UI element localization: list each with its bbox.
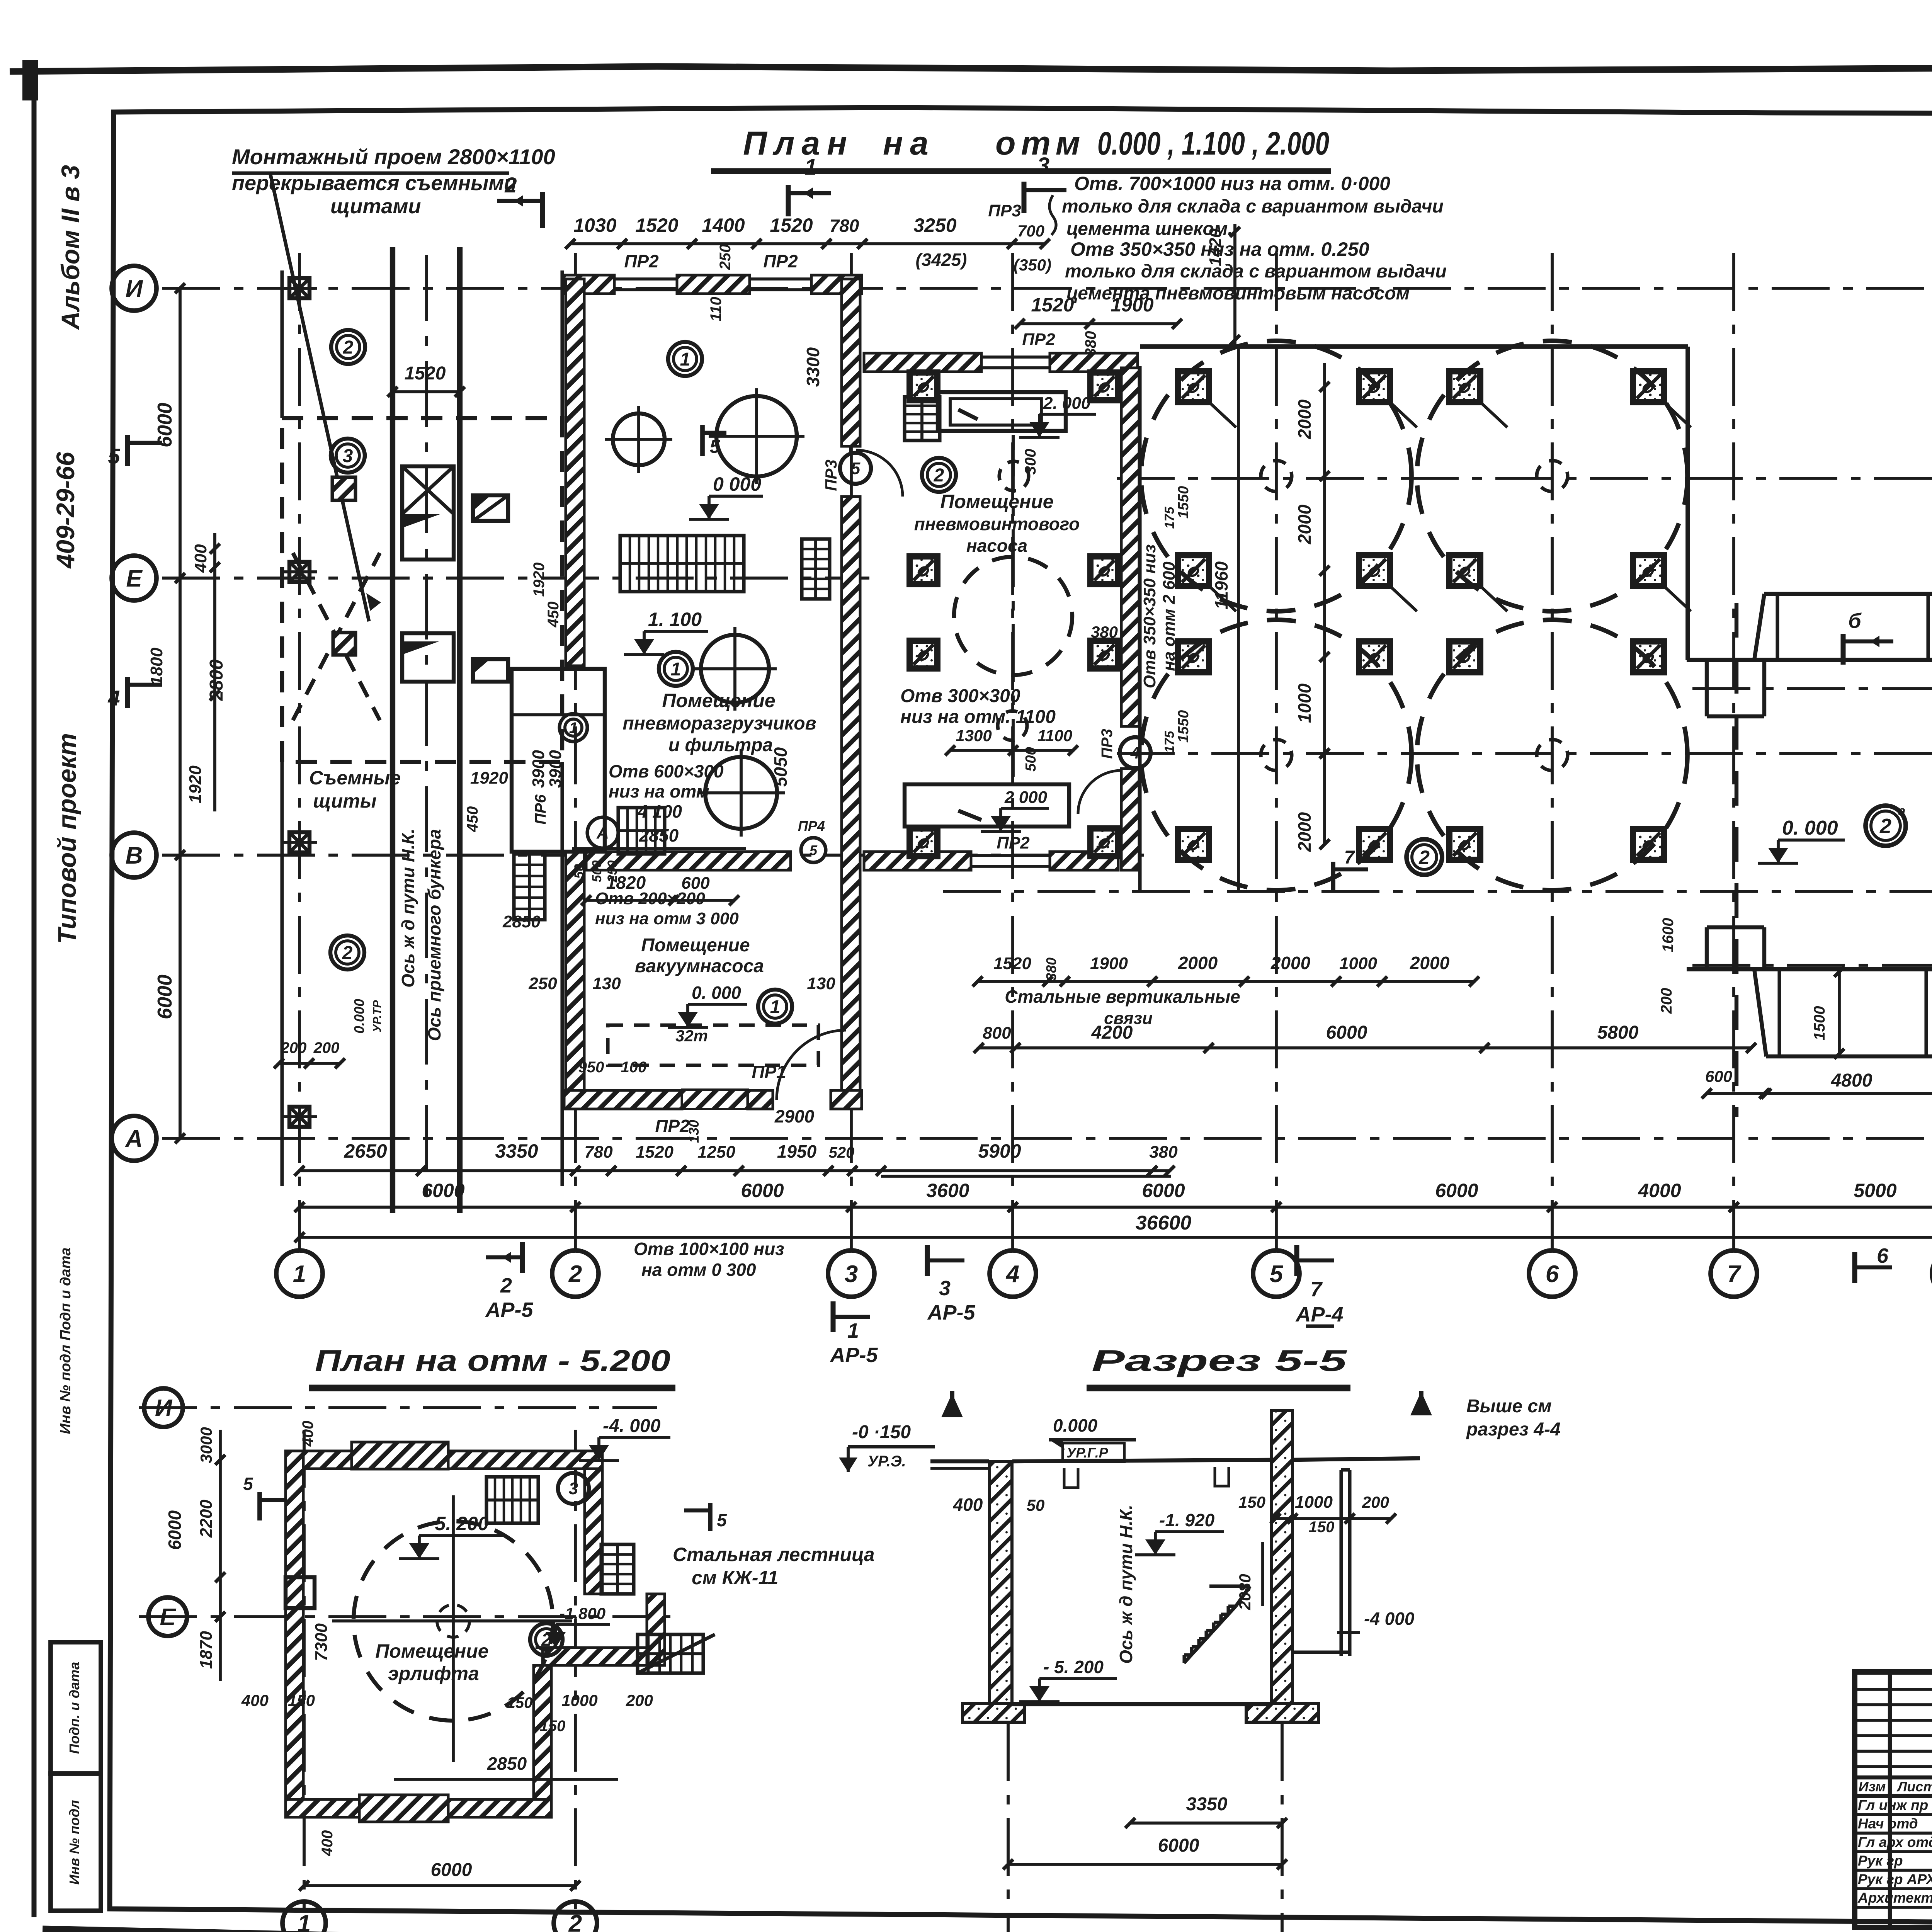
svg-text:130: 130 <box>807 974 835 993</box>
svg-text:Лист: Лист <box>1896 1779 1932 1794</box>
small hatch square upper strip <box>332 477 355 500</box>
svg-text:Помещение: Помещение <box>641 935 750 956</box>
title block header row <box>1855 1777 1932 1796</box>
svg-text:2: 2 <box>342 943 353 963</box>
svg-text:5800: 5800 <box>1597 1022 1639 1043</box>
left vertical dim chain <box>147 283 185 1143</box>
svg-text:1900: 1900 <box>1111 294 1153 316</box>
strip bubble 3 <box>331 439 365 473</box>
hall flag 7 <box>1333 847 1368 891</box>
small dashed circle 5-G <box>1261 740 1292 770</box>
svg-text:250: 250 <box>605 861 620 883</box>
grid bubble 3 bottom <box>828 1250 874 1297</box>
svg-text:Отв 600×300: Отв 600×300 <box>609 761 724 781</box>
svg-text:2000: 2000 <box>1294 504 1315 544</box>
right structure dim 600 left <box>1702 1067 1769 1099</box>
svg-text:3000: 3000 <box>197 1427 215 1463</box>
svg-text:1000: 1000 <box>1339 954 1377 973</box>
grid bubble 1 bottom <box>276 1250 323 1297</box>
svg-text:-1. 920: -1. 920 <box>1159 1510 1215 1530</box>
basement bottom opening <box>359 1795 448 1822</box>
svg-text:вакуумнасоса: вакуумнасоса <box>635 956 764 976</box>
svg-text:1550: 1550 <box>1175 710 1192 743</box>
svg-text:1520: 1520 <box>993 954 1031 973</box>
svg-text:Отв. 700×1000 низ на отм. 0·: Отв. 700×1000 низ на отм. 0·000 <box>1074 173 1390 194</box>
axis line column 3 <box>850 253 853 1251</box>
svg-text:низ на отм. 1100: низ на отм. 1100 <box>900 707 1056 727</box>
rail gauge dim 1520 <box>388 363 465 397</box>
crossed column G1-V <box>282 832 317 852</box>
svg-text:А: А <box>125 1126 143 1152</box>
svg-text:450: 450 <box>545 602 562 628</box>
basement bottom wall <box>286 1799 551 1817</box>
middle column 2390-1694 <box>910 641 937 668</box>
svg-text:6000: 6000 <box>154 975 176 1019</box>
svg-text:План на отм - 5.200: План на отм - 5.200 <box>315 1344 670 1378</box>
dim 380 middle <box>1091 623 1118 641</box>
svg-text:Отв 100×100 низ: Отв 100×100 низ <box>634 1239 784 1259</box>
basement bubble 2 room <box>530 1623 563 1656</box>
note hole 600x300 <box>609 761 724 821</box>
title block outer <box>1855 1672 1932 1927</box>
door PR3 east <box>822 446 903 497</box>
grid bubble 7 bottom <box>1711 1250 1757 1297</box>
svg-text:200: 200 <box>626 1691 653 1709</box>
section5 tri-mark left <box>941 1391 963 1417</box>
svg-text:(350): (350) <box>1014 256 1051 274</box>
margin text project <box>53 733 81 944</box>
middle room stair top <box>905 397 940 440</box>
svg-text:2000: 2000 <box>1294 812 1315 852</box>
svg-text:380: 380 <box>1043 957 1059 981</box>
svg-text:5: 5 <box>243 1474 253 1494</box>
svg-text:на: на <box>883 125 935 162</box>
svg-text:1250: 1250 <box>697 1143 735 1162</box>
section flag 7 AR-4 <box>1295 1245 1343 1326</box>
room label pneumatic screw <box>914 491 1080 556</box>
svg-text:1870: 1870 <box>197 1631 216 1669</box>
label PR2 bottom <box>655 1116 690 1136</box>
svg-text:4: 4 <box>1005 1261 1019 1287</box>
svg-text:Ось ж д пути Н.К.: Ось ж д пути Н.К. <box>398 828 418 988</box>
title plan -5.200 <box>309 1344 675 1388</box>
svg-text:Рук гр АРХ: Рук гр АРХ <box>1858 1871 1932 1887</box>
left building west wall <box>566 279 584 666</box>
svg-text:200: 200 <box>1658 988 1675 1014</box>
right structure bubble 2a <box>1866 804 1906 846</box>
dim 450 rot <box>531 563 562 628</box>
svg-text:5: 5 <box>810 842 818 858</box>
svg-text:400: 400 <box>953 1495 983 1515</box>
tank circle 4 <box>697 749 785 837</box>
svg-text:2: 2 <box>568 1910 582 1932</box>
svg-text:Е: Е <box>126 565 143 592</box>
svg-text:Инв № подл Подп и дата: Инв № подл Подп и дата <box>58 1247 74 1434</box>
svg-text:Гл инж пр: Гл инж пр <box>1858 1797 1928 1813</box>
svg-text:2650: 2650 <box>344 1140 387 1162</box>
svg-text:3300: 3300 <box>803 347 823 387</box>
svg-text:5: 5 <box>108 444 120 468</box>
silo circle top-right <box>1417 341 1687 611</box>
svg-text:1000: 1000 <box>1295 1493 1333 1512</box>
dims 50-500-250 <box>572 861 620 883</box>
scanner top-left corner mark <box>22 60 38 100</box>
axis line column 5 <box>1275 253 1278 1251</box>
basement dims bottom <box>241 1691 653 1891</box>
svg-text:1520: 1520 <box>636 1143 673 1162</box>
basement bubble 3 room <box>558 1473 589 1504</box>
svg-text:см КЖ-11: см КЖ-11 <box>692 1567 778 1588</box>
svg-text:150: 150 <box>1309 1519 1335 1536</box>
svg-text:1: 1 <box>804 155 817 180</box>
svg-text:Отв 350×350 низ: Отв 350×350 низ <box>1140 544 1159 689</box>
hall column 3089-1700 <box>1178 641 1209 672</box>
svg-text:450: 450 <box>464 806 481 833</box>
svg-text:1400: 1400 <box>702 214 745 236</box>
left building west wall lower <box>566 852 584 1106</box>
middle building bottom wall seg1 <box>864 852 971 870</box>
svg-text:1100: 1100 <box>1037 726 1072 745</box>
svg-text:6: 6 <box>1546 1261 1559 1287</box>
hall west boundary <box>1138 366 1141 891</box>
axis line Zh <box>1117 477 1932 480</box>
middle column 2858-2180 <box>1090 828 1118 856</box>
svg-text:6: 6 <box>1877 1244 1889 1267</box>
svg-text:Помещение: Помещение <box>375 1640 488 1662</box>
svg-text:7: 7 <box>1727 1261 1742 1287</box>
basement axis I <box>139 1406 657 1409</box>
margin stamp small text <box>58 1247 74 1434</box>
dim 250 mid <box>717 244 734 270</box>
text removable shields <box>309 767 401 812</box>
svg-text:3900: 3900 <box>529 750 548 788</box>
equipment rect middle lower <box>905 784 1069 827</box>
svg-text:6000: 6000 <box>154 403 176 447</box>
svg-text:6000: 6000 <box>165 1510 185 1550</box>
section5 floor line <box>1012 1702 1271 1706</box>
dim 500 rot middle <box>1023 747 1039 771</box>
basement center cross <box>332 1495 572 1762</box>
svg-text:щиты: щиты <box>313 790 376 812</box>
hall bubble 2 center <box>1406 839 1442 875</box>
basement stair top <box>486 1477 538 1523</box>
axis line D <box>1692 687 1932 690</box>
small dashed circle middle top <box>999 461 1029 491</box>
right structure bottom line <box>1687 967 1932 971</box>
svg-text:АР-4: АР-4 <box>1295 1303 1343 1326</box>
title plan 0.000 <box>711 125 1331 171</box>
svg-text:1300: 1300 <box>956 726 992 745</box>
section5 mid wall <box>1272 1410 1293 1704</box>
svg-text:150: 150 <box>507 1694 533 1711</box>
rail line 1 <box>390 247 395 1213</box>
svg-text:4000: 4000 <box>1638 1180 1681 1201</box>
svg-text:3: 3 <box>569 1479 578 1498</box>
hall column 3557-1700 <box>1359 641 1390 672</box>
svg-text:50: 50 <box>572 864 587 879</box>
svg-text:6000: 6000 <box>1158 1835 1199 1856</box>
svg-text:1: 1 <box>770 997 781 1017</box>
left building east wall upper <box>842 279 860 446</box>
svg-text:400: 400 <box>191 544 210 573</box>
basement room label <box>375 1640 488 1684</box>
svg-text:7: 7 <box>1310 1278 1323 1301</box>
section flag 6 bottom <box>1855 1244 1892 1283</box>
hall column 4266-1700 <box>1633 641 1664 672</box>
section flag 2 AR-5 <box>485 1242 533 1321</box>
axis line column 2 <box>574 253 577 1251</box>
big dashed circle middle room <box>954 557 1072 675</box>
svg-text:1000: 1000 <box>1294 683 1315 723</box>
dim row below vacuum <box>528 974 835 1076</box>
dims 1550 175 upper <box>1162 486 1192 529</box>
section flag 2 top <box>497 173 543 228</box>
svg-text:Разрез 5-5: Разрез 5-5 <box>1092 1344 1348 1378</box>
svg-text:2850: 2850 <box>639 825 679 845</box>
annex dims 3900 <box>529 750 565 825</box>
level mark 0.000 filter room <box>689 473 763 519</box>
section5 left footing <box>963 1704 1025 1722</box>
section5 right wall thin <box>1293 1470 1350 1656</box>
basement stair lower-right <box>638 1634 715 1673</box>
middle column 2390-2180 <box>910 828 937 856</box>
grid bubble 2 bottom <box>552 1250 599 1297</box>
svg-text:щитами: щитами <box>330 195 421 218</box>
svg-text:175: 175 <box>1162 731 1177 753</box>
bunker small square right 1 <box>473 495 508 521</box>
hall column 3791-2185 <box>1449 829 1480 860</box>
level mark 1.100 <box>624 609 708 655</box>
small dashed circle middle bottom <box>998 711 1027 740</box>
hall column 4266-1001 <box>1633 371 1664 402</box>
svg-text:Стальные вертикальные: Стальные вертикальные <box>1005 986 1240 1007</box>
svg-text:ПР4: ПР4 <box>798 818 825 834</box>
svg-text:5050: 5050 <box>770 747 791 787</box>
grid bubble V left <box>112 833 156 878</box>
hall column 3791-1477 <box>1449 555 1480 586</box>
svg-text:800: 800 <box>983 1024 1011 1043</box>
silo circle bottom-right <box>1417 620 1687 890</box>
top dim row <box>565 201 1051 274</box>
svg-text:а: а <box>1898 804 1906 818</box>
svg-text:3: 3 <box>845 1261 858 1287</box>
axis line column 6 <box>1551 253 1554 1251</box>
svg-text:низ на отм: низ на отм <box>609 781 709 801</box>
svg-text:1: 1 <box>680 349 690 370</box>
svg-text:ПР3: ПР3 <box>1099 729 1116 759</box>
svg-text:4800: 4800 <box>1831 1070 1872 1091</box>
svg-text:32т: 32т <box>675 1027 708 1045</box>
left building mid wall <box>586 852 791 870</box>
left building top wall seg 3 <box>811 275 862 294</box>
svg-text:250: 250 <box>717 244 734 270</box>
note hole 200x200 <box>595 889 739 928</box>
svg-text:АР-5: АР-5 <box>485 1298 533 1321</box>
svg-text:250: 250 <box>528 974 557 993</box>
note steel ladder <box>673 1544 874 1588</box>
right structure bottom trapezoid <box>1754 969 1932 1056</box>
svg-text:ПР2: ПР2 <box>1022 330 1055 349</box>
silo circle top-left <box>1141 341 1412 611</box>
basement east ext <box>543 1594 665 1665</box>
basement level -5.200 <box>399 1513 503 1559</box>
svg-text:и фильтра: и фильтра <box>668 735 773 755</box>
section5 dim 2080 <box>1236 1542 1263 1611</box>
dim 3300 rot <box>803 347 823 387</box>
crossed column G1-A <box>282 1107 317 1127</box>
section5 level -4.000 <box>1337 1609 1415 1633</box>
section flag 4 left <box>107 677 162 710</box>
basement dashed circle <box>354 1521 553 1721</box>
level 0.000 right structure <box>1758 817 1845 863</box>
svg-text:2850: 2850 <box>502 912 541 931</box>
svg-text:520: 520 <box>829 1144 855 1161</box>
left building bottom wall seg1 <box>564 1090 682 1109</box>
svg-text:1: 1 <box>671 659 681 680</box>
section5 level 0.000 <box>1049 1415 1136 1462</box>
svg-text:600: 600 <box>1705 1067 1732 1085</box>
svg-text:500: 500 <box>590 861 604 883</box>
dim 5050 rot <box>770 747 791 787</box>
annex rect left <box>512 669 605 852</box>
svg-text:400: 400 <box>241 1691 269 1709</box>
basement axis E <box>139 1615 680 1618</box>
svg-text:ПР3: ПР3 <box>988 201 1021 220</box>
svg-text:1420: 1420 <box>1206 228 1225 266</box>
axis line B-hall <box>943 890 1932 893</box>
svg-text:1920: 1920 <box>470 769 508 787</box>
dim 110 rot <box>707 297 724 321</box>
rotated note hole 350x350 <box>1140 544 1179 689</box>
svg-text:5: 5 <box>1270 1261 1284 1287</box>
left building top wall opening 2 <box>750 279 811 290</box>
middle building bottom wall opening PR2 <box>971 833 1050 866</box>
svg-text:ПР2: ПР2 <box>997 833 1030 852</box>
svg-text:А: А <box>596 823 609 842</box>
svg-text:380: 380 <box>1149 1143 1178 1162</box>
svg-text:План: План <box>743 125 854 162</box>
svg-text:Гл арх отд: Гл арх отд <box>1858 1834 1932 1850</box>
axis line V <box>162 854 1144 857</box>
svg-text:36600: 36600 <box>1136 1212 1192 1234</box>
left dim 400-2800 <box>186 533 227 811</box>
hall column 3089-1001 <box>1178 371 1209 402</box>
svg-text:1920: 1920 <box>186 765 205 803</box>
svg-text:ПР3: ПР3 <box>822 459 840 491</box>
section5 stairs <box>1184 1586 1250 1663</box>
axis line column 4 <box>1011 253 1014 1251</box>
svg-text:2: 2 <box>504 173 517 197</box>
svg-text:1550: 1550 <box>1175 486 1192 519</box>
hall lower dim 5900-380 line <box>881 1175 1171 1178</box>
svg-text:пневморазгрузчиков: пневморазгрузчиков <box>622 713 816 734</box>
svg-text:-4. 000: -4. 000 <box>603 1416 661 1436</box>
plan bottom dim row 1 <box>294 1140 1178 1176</box>
scanner top edge line <box>10 66 1932 71</box>
bunker box lower <box>402 633 454 682</box>
tank circle 1 <box>605 406 672 473</box>
rail track axis <box>425 255 428 1206</box>
svg-text:0. 000: 0. 000 <box>692 983 741 1003</box>
left building top wall seg 2 <box>677 275 750 294</box>
svg-text:50: 50 <box>1027 1496 1045 1514</box>
hall column 4266-2185 <box>1633 829 1664 860</box>
small dashed circle 6-G <box>1537 740 1568 770</box>
hall east wall <box>1685 347 1690 660</box>
room label filter <box>622 690 816 755</box>
svg-text:100: 100 <box>621 1059 647 1076</box>
basement west wall <box>286 1451 303 1808</box>
svg-text:Рук гр: Рук гр <box>1858 1853 1903 1869</box>
basement dim 7300 <box>312 1623 331 1661</box>
svg-text:0.000 , 1.100 , 2.000: 0.000 , 1.100 , 2.000 <box>1097 125 1329 162</box>
strip bubble 2 lower <box>330 935 364 969</box>
svg-text:1520: 1520 <box>405 363 446 384</box>
svg-text:3250: 3250 <box>913 214 956 236</box>
margin text 409-29-66 <box>51 451 80 569</box>
svg-text:7: 7 <box>1344 847 1355 868</box>
middle column 2390-1476 <box>910 556 937 584</box>
annex small stair <box>514 854 545 920</box>
axis label receiving bunker <box>424 829 444 1041</box>
basement flag 5 left <box>243 1474 286 1520</box>
svg-text:2: 2 <box>1879 815 1891 838</box>
middle column 2390-1000 <box>910 372 937 400</box>
hall column 3089-2185 <box>1178 829 1209 860</box>
svg-text:3: 3 <box>343 446 353 466</box>
tank circle 3 <box>693 627 777 711</box>
dim 11960 rot <box>1211 347 1238 891</box>
svg-text:1030: 1030 <box>573 214 616 236</box>
svg-text:1520: 1520 <box>770 214 813 236</box>
left building bottom wall seg2 <box>748 1090 773 1109</box>
svg-text:3: 3 <box>939 1277 951 1300</box>
hall column 3089-1477 <box>1178 555 1209 586</box>
svg-text:пневмовинтового: пневмовинтового <box>914 514 1080 534</box>
grid bubble 4 bottom <box>990 1250 1036 1297</box>
section5 level -1.920 <box>1135 1510 1224 1555</box>
basement bubble 2 <box>554 1901 597 1932</box>
svg-text:Подп. и дата: Подп. и дата <box>66 1662 82 1754</box>
section flag b <box>1843 609 1893 665</box>
grid bubble A left <box>112 1116 156 1161</box>
axis line column 7 <box>1732 253 1735 1251</box>
section5 left wall <box>990 1461 1012 1706</box>
main stair filter room <box>620 536 744 592</box>
svg-text:200: 200 <box>313 1039 340 1056</box>
basement bubble I <box>144 1388 183 1427</box>
svg-text:Помещение: Помещение <box>662 690 775 711</box>
level 2.000 lower middle <box>981 788 1049 832</box>
rail line 2 <box>457 247 463 1213</box>
middle room bubble 2 <box>922 458 956 492</box>
plan bottom dim row 2 <box>294 1180 1932 1212</box>
basement dim left chain <box>165 1427 225 1681</box>
svg-text:1920: 1920 <box>531 563 548 597</box>
grid bubble 6 bottom <box>1529 1250 1575 1297</box>
axis line A <box>162 1137 1932 1140</box>
axis line B <box>1692 964 1932 967</box>
svg-text:1500: 1500 <box>1811 1006 1828 1041</box>
svg-text:2000: 2000 <box>1270 953 1311 973</box>
basement bubble E <box>148 1597 187 1636</box>
dim 1920-450 annex <box>464 769 508 832</box>
svg-text:2: 2 <box>1418 847 1430 868</box>
grid bubble 5 bottom <box>1253 1250 1299 1297</box>
strip bubble 2 upper <box>331 330 365 364</box>
section5 note above <box>1466 1396 1561 1440</box>
svg-text:6000: 6000 <box>431 1860 472 1880</box>
